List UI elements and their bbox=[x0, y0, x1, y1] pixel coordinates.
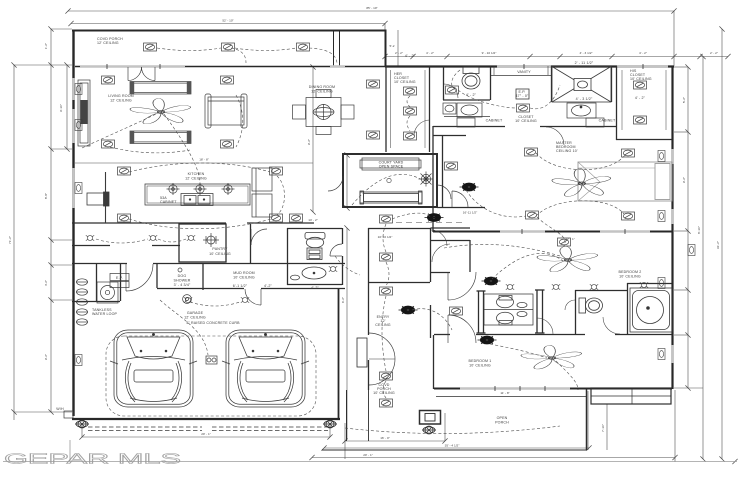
garage man-door arc bbox=[245, 289, 261, 305]
living room lights bbox=[102, 76, 115, 84]
entry hall walls bbox=[368, 228, 370, 335]
svg-text:4' - 3 1/2": 4' - 3 1/2" bbox=[579, 51, 592, 55]
svg-text:47" - 0": 47" - 0" bbox=[516, 94, 530, 98]
pantry walls bbox=[179, 224, 226, 262]
svg-text:E.P.: E.P. bbox=[116, 276, 123, 280]
svg-text:52' - 10": 52' - 10" bbox=[222, 19, 233, 23]
powder sink bbox=[291, 267, 327, 280]
living/kitchen dim bbox=[75, 162, 313, 164]
vertical stub x674 top bbox=[673, 11, 675, 66]
dog shower walls bbox=[156, 263, 158, 288]
svg-text:W/H: W/H bbox=[56, 407, 64, 411]
j&j toilet bbox=[579, 298, 603, 313]
dining table set bbox=[293, 90, 355, 135]
svg-text:4' - 2": 4' - 2" bbox=[635, 96, 646, 100]
covered porch left wall + garage right bbox=[346, 390, 348, 441]
vertical stub x398 bbox=[397, 30, 399, 66]
dog porch box bbox=[591, 388, 671, 404]
svg-text:8'-10": 8'-10" bbox=[697, 226, 701, 234]
living room fan bbox=[128, 98, 192, 125]
svg-text:4' - 2": 4' - 2" bbox=[405, 54, 416, 58]
svg-text:14' - 2": 14' - 2" bbox=[308, 218, 318, 222]
bedroom2 fan bbox=[535, 246, 599, 273]
svg-text:10' CEILING: 10' CEILING bbox=[515, 119, 537, 123]
fridge + counter bbox=[87, 172, 109, 223]
living patio french doors bbox=[128, 67, 142, 81]
hall doors to bedrooms bbox=[448, 272, 476, 300]
right dim col 2 bbox=[702, 57, 704, 460]
mud room light bbox=[184, 297, 192, 302]
E.P. panel bbox=[516, 89, 529, 99]
washer/dryer bbox=[97, 282, 118, 303]
svg-text:BEDROOM 2: BEDROOM 2 bbox=[619, 270, 642, 274]
porch side wall pair bbox=[333, 31, 335, 67]
svg-text:16'-11 1/2": 16'-11 1/2" bbox=[463, 211, 478, 215]
svg-text:2' - 2": 2' - 2" bbox=[395, 51, 403, 55]
svg-text:16' - 0": 16' - 0" bbox=[380, 436, 390, 440]
svg-text:85' - 10": 85' - 10" bbox=[366, 6, 377, 10]
svg-text:8'-8": 8'-8" bbox=[44, 193, 48, 199]
top-left wing outer walls bbox=[72, 30, 385, 32]
svg-text:71'-2": 71'-2" bbox=[8, 236, 12, 244]
svg-text:10' CEILING: 10' CEILING bbox=[233, 276, 255, 280]
svg-text:1'-2": 1'-2" bbox=[44, 43, 48, 49]
garage south wall bbox=[72, 418, 340, 420]
svg-text:SHOWER: SHOWER bbox=[173, 279, 190, 283]
couch bottom bbox=[130, 131, 191, 144]
top segmented dim line right wing bbox=[385, 56, 728, 58]
top second dim line bbox=[71, 23, 385, 25]
bottom garage dim bbox=[82, 436, 330, 438]
svg-text:GARAGE: GARAGE bbox=[187, 311, 204, 315]
courtyard sun symbol bbox=[419, 172, 434, 187]
master bath: cabinet boxes bbox=[457, 118, 604, 127]
svg-text:9'-10": 9'-10" bbox=[59, 104, 63, 112]
shower bbox=[552, 67, 611, 103]
svg-text:12' CEILING: 12' CEILING bbox=[110, 99, 132, 103]
svg-text:12' CEILING: 12' CEILING bbox=[311, 90, 333, 94]
top overall dim line bbox=[68, 10, 674, 12]
pantry door bbox=[251, 229, 267, 245]
dog shower fixture bbox=[110, 268, 191, 303]
interior dim verticals bbox=[312, 67, 314, 212]
kitchen lights bbox=[118, 167, 131, 175]
bath/bedroom divider bbox=[433, 126, 505, 128]
her closet door bbox=[414, 120, 430, 136]
hall lights bbox=[86, 235, 94, 240]
master suite door bbox=[452, 191, 468, 207]
master bath: her sink bbox=[443, 103, 456, 114]
dark junction blobs bbox=[460, 183, 479, 192]
master fan bbox=[550, 169, 612, 198]
svg-text:6'-2": 6'-2" bbox=[341, 297, 345, 303]
garage doors dashed bbox=[88, 427, 328, 431]
svg-text:11' - 8": 11' - 8" bbox=[500, 391, 509, 395]
svg-text:MUD ROOM: MUD ROOM bbox=[233, 271, 255, 275]
bath lights bbox=[446, 86, 459, 94]
svg-text:BEDROOM 1: BEDROOM 1 bbox=[469, 359, 492, 363]
couch top bbox=[130, 82, 191, 95]
master bed bbox=[578, 162, 672, 201]
left dim col 3 bbox=[66, 65, 68, 149]
courtyard bench bbox=[360, 191, 422, 204]
left horizontal stubs bbox=[14, 64, 72, 66]
meters stack (left wall utility) bbox=[76, 279, 88, 325]
svg-text:18' - 8": 18' - 8" bbox=[199, 158, 209, 162]
svg-text:35' - 4 1/2": 35' - 4 1/2" bbox=[445, 444, 460, 448]
svg-text:10'-10 1/2": 10'-10 1/2" bbox=[378, 235, 393, 239]
master bath: toilet bbox=[462, 67, 480, 89]
svg-text:CEILING 10': CEILING 10' bbox=[556, 149, 578, 153]
kitchen tall cabinets right bbox=[252, 168, 272, 217]
his closet lights bbox=[634, 81, 647, 89]
svg-text:9' - 10 1/2": 9' - 10 1/2" bbox=[482, 51, 497, 55]
porch post bbox=[420, 411, 441, 425]
bedroom2 light bbox=[558, 238, 571, 246]
porch bottom lights bbox=[75, 420, 89, 428]
vanity line bbox=[491, 75, 551, 77]
right dim col 1 bbox=[687, 67, 689, 388]
svg-text:PANTRY: PANTRY bbox=[212, 247, 228, 251]
svg-text:12' CEILING: 12' CEILING bbox=[185, 177, 207, 181]
mid vertical dining/closet walls bbox=[385, 66, 387, 152]
svg-text:10' CEILING: 10' CEILING bbox=[209, 252, 231, 256]
bedroom1 fan bbox=[519, 345, 583, 370]
bottom porch dim bbox=[345, 440, 445, 442]
svg-text:12' CEILING: 12' CEILING bbox=[184, 316, 206, 320]
entry closet bbox=[431, 227, 471, 229]
svg-text:10' CEILING: 10' CEILING bbox=[394, 80, 416, 84]
svg-text:4'-2": 4'-2" bbox=[264, 284, 272, 288]
pantry hanging light bbox=[203, 233, 219, 247]
jack&jill bath walls bbox=[478, 291, 480, 333]
window divider ticks bbox=[107, 64, 643, 391]
svg-text:20' - 1": 20' - 1" bbox=[363, 453, 373, 457]
svg-text:4'-2": 4'-2" bbox=[311, 286, 319, 290]
hall south wall bbox=[72, 245, 110, 247]
svg-text:2' - 11 1/2": 2' - 11 1/2" bbox=[575, 61, 594, 65]
svg-text:DINING ROOM: DINING ROOM bbox=[309, 85, 335, 89]
car 2 bbox=[222, 330, 309, 407]
svg-text:2' - 2": 2' - 2" bbox=[710, 51, 718, 55]
svg-text:5'-2: 5'-2 bbox=[389, 44, 394, 48]
dining lights bbox=[367, 80, 380, 88]
svg-text:CEILING: CEILING bbox=[375, 323, 390, 327]
car 1 bbox=[110, 330, 197, 407]
master bed / bedroom2 divider bbox=[433, 231, 672, 233]
master bath: vanity counters bbox=[444, 103, 596, 118]
svg-text:PORCH: PORCH bbox=[495, 421, 509, 425]
porch lights bbox=[144, 43, 157, 51]
svg-text:KITCHEN: KITCHEN bbox=[188, 172, 205, 176]
svg-text:9'-2": 9'-2" bbox=[307, 139, 311, 145]
svg-text:OPEN: OPEN bbox=[497, 416, 508, 420]
svg-text:LIVING ROOM: LIVING ROOM bbox=[108, 94, 134, 98]
svg-text:9'-2": 9'-2" bbox=[44, 354, 48, 360]
mud room band wall bbox=[72, 263, 127, 265]
svg-text:4'-2": 4'-2" bbox=[44, 280, 48, 286]
svg-text:4' - 3 1/2": 4' - 3 1/2" bbox=[576, 97, 593, 101]
fireplace media wall bbox=[78, 80, 90, 146]
closet arcs bbox=[432, 244, 450, 262]
linen closet walls bbox=[442, 136, 444, 207]
entry hall top wall bbox=[368, 228, 431, 230]
svg-text:20' - 1": 20' - 1" bbox=[201, 432, 211, 436]
svg-text:CABINET: CABINET bbox=[599, 119, 616, 123]
dim labels bbox=[199, 6, 718, 457]
svg-text:91'-2": 91'-2" bbox=[716, 241, 720, 249]
master bedroom lights bbox=[525, 148, 538, 156]
svg-text:DOG: DOG bbox=[178, 274, 187, 278]
kitchen south wall bbox=[72, 222, 226, 224]
courtyard bbox=[343, 154, 437, 207]
W/H tankless bbox=[64, 411, 73, 418]
svg-text:10' CEILING: 10' CEILING bbox=[373, 391, 395, 395]
svg-text:3' - 4 3/4": 3' - 4 3/4" bbox=[174, 283, 191, 287]
toilet room door bbox=[444, 84, 458, 98]
right dim col 3 bbox=[721, 29, 723, 459]
j&j doors bbox=[546, 127, 564, 145]
svg-text:9'-2": 9'-2" bbox=[682, 177, 686, 183]
svg-text:4" RAISED CONCRETE CURB: 4" RAISED CONCRETE CURB bbox=[186, 321, 240, 325]
courtyard pot bbox=[387, 178, 391, 182]
kitchen pendants bbox=[167, 183, 235, 195]
window bands (gray) bbox=[74, 67, 673, 389]
tub bbox=[630, 288, 672, 332]
svg-text:GEPAR MLS: GEPAR MLS bbox=[4, 452, 181, 468]
left dim col 1 bbox=[13, 65, 15, 420]
svg-text:VANITY: VANITY bbox=[517, 70, 531, 74]
powder light bbox=[290, 214, 303, 222]
right wall bbox=[671, 66, 673, 390]
svg-text:5'-2": 5'-2" bbox=[682, 97, 686, 103]
svg-text:7'-10": 7'-10" bbox=[601, 424, 605, 432]
svg-text:10' CEILING: 10' CEILING bbox=[469, 364, 491, 368]
covered porch bottom / living north wall bbox=[75, 66, 385, 68]
front entry arc bbox=[369, 333, 395, 359]
powder room bbox=[287, 228, 289, 285]
courtyard doors bbox=[328, 176, 343, 191]
entry hall lights bbox=[380, 215, 393, 223]
porch lines bottom right bbox=[436, 396, 586, 398]
bedroom1 south wall bbox=[434, 388, 672, 390]
powder toilet bbox=[305, 233, 325, 260]
j&j vanity bbox=[484, 294, 533, 325]
powder door bbox=[330, 244, 342, 256]
left dim col 2 bbox=[50, 29, 52, 412]
garage north walls bbox=[72, 301, 120, 303]
bedroom1 north wall bbox=[434, 334, 450, 336]
right wing north wall bbox=[385, 65, 674, 67]
porch column left bbox=[357, 338, 367, 367]
svg-text:4' - 2": 4' - 2" bbox=[426, 51, 434, 55]
svg-text:CABINET: CABINET bbox=[160, 200, 177, 204]
closet shelving bbox=[391, 70, 667, 148]
mud room door bbox=[126, 264, 153, 291]
right horizontal stubs bbox=[674, 66, 688, 68]
courtyard label box bbox=[360, 158, 421, 170]
svg-text:10' CEILING: 10' CEILING bbox=[630, 77, 652, 81]
svg-text:10' CEILING: 10' CEILING bbox=[619, 275, 641, 279]
her closet lights bbox=[404, 87, 417, 95]
svg-text:4' - 2": 4' - 2" bbox=[466, 93, 477, 97]
svg-text:6'-1 1/2": 6'-1 1/2" bbox=[233, 284, 248, 288]
svg-text:4' - 2": 4' - 2" bbox=[639, 51, 647, 55]
vertical stub x385 bbox=[384, 24, 386, 67]
master bath walls bbox=[443, 66, 445, 100]
svg-text:CABINET: CABINET bbox=[486, 119, 503, 123]
svg-text:OPEN SPACE: OPEN SPACE bbox=[379, 165, 404, 169]
svg-text:12' CEILING: 12' CEILING bbox=[97, 41, 119, 45]
armchair bbox=[205, 94, 247, 128]
garage opener bbox=[206, 356, 217, 364]
kitchen island bbox=[145, 184, 250, 206]
utility wall left bbox=[120, 263, 122, 301]
j&j lights bbox=[506, 284, 514, 289]
svg-text:WATER LOOP: WATER LOOP bbox=[92, 312, 118, 316]
